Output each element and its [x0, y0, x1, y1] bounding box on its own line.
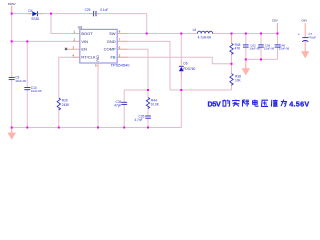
char 电 [253, 100, 259, 107]
wire PAD pin9 down [97, 69, 99, 128]
svg-text:243K: 243K [62, 103, 70, 107]
resistor R45 [230, 43, 233, 54]
svg-text:15uF-06: 15uF-06 [264, 47, 275, 51]
junction (148,127.5) [147, 127, 149, 129]
wire FB pin trace [117, 57, 231, 64]
junction (11.7,127.5) [11, 127, 13, 129]
wire R44 to C35 lead [147, 107, 149, 116]
resistor R38 [230, 74, 233, 86]
capacitor C9 [9, 77, 15, 79]
junction (181.8,90) [180, 89, 182, 91]
svg-text:4.7nF: 4.7nF [134, 118, 142, 122]
pin stub BOOT [72, 33, 80, 35]
svg-text:10.0K: 10.0K [151, 103, 160, 107]
annotation CJK glyphs (drawn) [223, 100, 287, 107]
svg-text:BOOT: BOOT [81, 31, 93, 36]
wire R45 top lead [231, 34, 233, 44]
svg-text:15uF-06: 15uF-06 [279, 47, 290, 51]
svg-text:D6: D6 [183, 62, 187, 66]
wire C10 column [26, 41, 28, 87]
wire VIN horizontal [12, 40, 80, 42]
ground symbol left [7, 128, 16, 140]
svg-text:D5V: D5V [208, 99, 221, 108]
wire C35 bottom lead [147, 118, 149, 127]
svg-text:PDS760: PDS760 [183, 67, 195, 71]
resistor R44 [146, 98, 149, 109]
wire comp branch to C36 [124, 90, 148, 102]
junction (11.7,13.6) [11, 13, 13, 15]
svg-text:COMP: COMP [104, 47, 116, 52]
svg-text:10uF-06: 10uF-06 [31, 89, 42, 93]
wire C40 bottom [277, 47, 279, 59]
svg-text:D5V: D5V [302, 19, 308, 23]
svg-text:4.7uH-6A: 4.7uH-6A [198, 36, 212, 40]
capacitor C38 [258, 45, 264, 47]
capacitor C40 [275, 45, 281, 47]
wire left rail down [11, 14, 13, 78]
resistor R26 [57, 98, 60, 110]
wire R38 bottom lead [231, 83, 233, 90]
capacitor C35 [145, 116, 151, 118]
svg-text:+: + [298, 33, 300, 37]
wire COMP pin trace [117, 49, 148, 98]
svg-text:VIN: VIN [81, 39, 88, 44]
svg-text:L6: L6 [193, 28, 197, 32]
wire BOOT drop [51, 14, 80, 34]
svg-text:SS36: SS36 [31, 17, 39, 21]
svg-text:DD5V: DD5V [8, 2, 16, 6]
pin stub SW [117, 33, 128, 35]
ground symbol C7 [301, 51, 309, 58]
wire D6 top lead [180, 34, 182, 63]
wire C10 column lower [26, 90, 28, 128]
svg-text:47pF: 47pF [114, 103, 121, 107]
char 为 [281, 100, 287, 107]
wire R38 top lead [231, 64, 233, 74]
svg-text:0.1uF: 0.1uF [100, 8, 108, 12]
capacitor C25 [90, 11, 101, 16]
junction (148,90) [147, 89, 149, 91]
junction (261,33.5) [260, 33, 262, 35]
no-connect X on EN [65, 48, 67, 50]
op IC U8 box TPS54540 [80, 29, 117, 63]
char 的 [223, 100, 230, 107]
inductor L6 [197, 31, 212, 33]
capacitor C7 polarized [302, 38, 308, 42]
wire top BOOT net horizontal [12, 13, 147, 15]
svg-text:10K: 10K [235, 79, 242, 83]
svg-text:RT/CLK: RT/CLK [81, 55, 95, 60]
svg-text:D5V: D5V [272, 19, 278, 23]
junction (146.7,33.5) [146, 33, 148, 35]
capacitor C36 [121, 102, 127, 104]
junction (231.5,33.5) [231, 33, 233, 35]
junction (181,33.5) [180, 33, 182, 35]
diode D4 [27, 11, 43, 16]
pin stub FB [117, 56, 128, 58]
svg-text:10uF-06: 10uF-06 [15, 79, 26, 83]
pin stub PAD 9 [97, 63, 99, 69]
wire R45 bottom lead [231, 52, 233, 64]
ground symbol output caps [242, 68, 250, 75]
svg-text:4.56V: 4.56V [289, 99, 309, 108]
wire C38 column [260, 34, 262, 45]
char 压 [262, 100, 269, 106]
junction (124.2,127.5) [123, 127, 125, 129]
junction (277.5,33.5) [277, 33, 279, 35]
wire ground stub right [245, 59, 247, 68]
junction (98,127.5) [97, 127, 99, 129]
wire C62 bottom [245, 47, 247, 59]
wire output cap ground rail [246, 58, 278, 60]
pin stub GND [117, 40, 128, 42]
svg-text:SW: SW [109, 31, 116, 36]
svg-text:TPS54540: TPS54540 [111, 63, 131, 68]
junction (51,13.6) [50, 13, 52, 15]
wire D6 bottom lead [180, 71, 182, 77]
svg-text:47K: 47K [235, 46, 242, 50]
wire C7 bottom stub [304, 41, 306, 52]
junction (58.8,127.5) [58, 127, 60, 129]
annotation Chinese text D5V actual voltage is 4.56V [208, 99, 310, 108]
wire C38 bottom [260, 47, 262, 59]
pin stub COMP [117, 48, 128, 50]
svg-text:R26: R26 [62, 99, 68, 103]
pin stub RT/CLK [72, 56, 80, 58]
wire C25 right drop to SW [146, 14, 148, 34]
capacitor C62 [243, 45, 249, 47]
junction (245.8,59.4) [245, 58, 247, 60]
wire C62 column [245, 34, 247, 45]
svg-text:GND: GND [107, 39, 116, 44]
svg-text:U8: U8 [78, 25, 83, 29]
capacitor C10 [24, 88, 30, 90]
junction (245.8,33.5) [245, 33, 247, 35]
wire C7 top stub [304, 23, 306, 37]
pin stub EN [65, 48, 80, 50]
junction (27.3,41.4) [26, 40, 28, 42]
svg-text:C25: C25 [85, 8, 91, 12]
char 际 [243, 100, 250, 107]
svg-text:9: 9 [95, 63, 97, 67]
char 实 [233, 100, 240, 107]
wire D5V flag stub [277, 23, 279, 34]
svg-text:EN: EN [81, 47, 87, 52]
wire ground rail [12, 90, 182, 128]
svg-text:FB: FB [110, 55, 115, 60]
wire GND pin trace [117, 41, 231, 90]
wire SW net to inductor [117, 33, 197, 35]
svg-text:470uF: 470uF [308, 36, 316, 40]
wire left rail below C9 [11, 80, 13, 128]
svg-text:PAD: PAD [96, 54, 100, 61]
wire RT/CLK to R26 [59, 57, 80, 98]
junction (231.5,63.8) [231, 63, 233, 65]
wire C36 bottom lead [123, 105, 125, 128]
wire DD5V stub [11, 6, 13, 14]
junction (11.7,41.4) [11, 40, 13, 42]
junction (27.3,127.5) [26, 127, 28, 129]
wire C40 column [277, 34, 279, 45]
svg-text:D4: D4 [28, 9, 32, 13]
char 值 [271, 100, 277, 107]
wire D5V rail after inductor [212, 33, 277, 35]
wire R26 bottom lead [58, 108, 60, 128]
junction (261,59.4) [260, 58, 262, 60]
diode D6 PDS760 [179, 62, 184, 72]
pin stub VIN [72, 40, 80, 42]
